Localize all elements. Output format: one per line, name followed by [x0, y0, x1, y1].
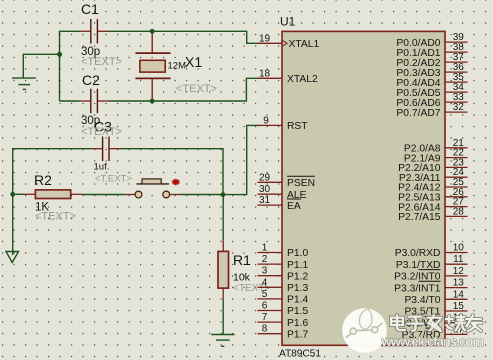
watermark glyph 发: [428, 315, 442, 331]
pin 16 P3.6/WR: [399, 313, 467, 330]
resistor R2: [24, 190, 82, 199]
pin 2 P1.1: [258, 254, 309, 271]
svg-text:<TEXT>: <TEXT>: [35, 211, 76, 223]
svg-text:1: 1: [262, 243, 268, 254]
svg-text:18: 18: [259, 68, 271, 79]
capacitor C3: [91, 137, 121, 162]
wire R2 to button: [82, 194, 125, 196]
pin 19 XTAL1: [258, 33, 320, 50]
svg-text:AT89C51: AT89C51: [279, 349, 321, 360]
svg-text:P1.0: P1.0: [287, 248, 308, 259]
watermark glyph 友: [466, 315, 482, 331]
wire C2 left: [60, 100, 80, 102]
pin 23 P2.2/A10: [398, 157, 467, 174]
svg-text:12M: 12M: [168, 61, 187, 72]
svg-text:P3.4/T0: P3.4/T0: [404, 295, 440, 306]
svg-text:P2.7/A15: P2.7/A15: [398, 212, 441, 223]
svg-text:P1.1: P1.1: [287, 260, 308, 271]
pin 24 P2.3/A11: [399, 167, 468, 184]
svg-text:P3.3/INT1: P3.3/INT1: [394, 283, 441, 294]
svg-text:P1.4: P1.4: [287, 295, 308, 306]
node crystal top junction: [150, 29, 155, 34]
svg-text:P1.7: P1.7: [287, 329, 308, 340]
pin 5 P1.4: [258, 289, 309, 306]
crystal X1: [135, 33, 170, 99]
pin 6 P1.5: [258, 301, 309, 318]
wire C1 left to corner: [60, 31, 80, 101]
svg-text:4: 4: [262, 277, 268, 288]
svg-text:P1.2: P1.2: [287, 271, 308, 282]
svg-text:<TEXT>: <TEXT>: [81, 126, 122, 138]
pin 14 P3.4/T0: [404, 289, 467, 306]
pin 22 P2.1/A9: [404, 148, 468, 165]
pin 25 P2.4/A12: [398, 177, 467, 194]
svg-text:9: 9: [263, 115, 269, 126]
wire node to R1: [222, 195, 224, 240]
node RST junction: [221, 192, 226, 197]
resistor R1: [218, 240, 229, 300]
wire C3 right to node: [121, 149, 224, 195]
pin 12 P3.2/INT0: [394, 266, 467, 283]
wire node to RST pin: [223, 125, 260, 194]
svg-text:5: 5: [262, 289, 268, 300]
svg-text:R1: R1: [233, 252, 251, 268]
pin 31 EA: [258, 195, 302, 212]
watermark chinese text: [391, 315, 482, 331]
pin 30 ALE: [258, 184, 307, 201]
pin 10 P3.0/RXD: [395, 243, 468, 260]
svg-text:31: 31: [259, 195, 271, 206]
IC U1 AT89C51 body: [282, 31, 445, 345]
pin 33 P0.6/AD6: [396, 92, 467, 109]
pin 35 P0.4/AD4: [396, 72, 467, 89]
svg-text:C1: C1: [81, 1, 99, 17]
node crystal bottom junction: [150, 99, 155, 104]
svg-text:P1.5: P1.5: [287, 306, 308, 317]
capacitor C1: [80, 19, 110, 44]
wire C3 left branch: [13, 149, 91, 195]
svg-text:12: 12: [453, 266, 465, 277]
svg-text:X1: X1: [185, 54, 202, 70]
pin 39 P0.0/AD0: [396, 32, 467, 49]
pin 32 P0.7/AD7: [396, 102, 467, 119]
svg-text:15: 15: [453, 301, 465, 312]
ground arrow (bottom-left): [6, 252, 19, 263]
svg-text:19: 19: [259, 33, 271, 44]
svg-text:1uf.: 1uf.: [94, 162, 110, 173]
wire R2 node to arrow ground: [12, 194, 14, 255]
svg-text:P1.6: P1.6: [287, 318, 308, 329]
svg-text:32: 32: [453, 102, 465, 113]
pin 4 P1.3: [258, 277, 309, 294]
watermark logo circle: [342, 308, 387, 353]
svg-text:10k: 10k: [233, 272, 251, 284]
watermark glyph 电: [391, 315, 405, 330]
svg-text:29: 29: [259, 172, 271, 183]
svg-text:RST: RST: [287, 121, 308, 132]
ground (under R1): [211, 335, 234, 347]
pin 3 P1.2: [258, 266, 309, 283]
svg-text:P0.7/AD7: P0.7/AD7: [396, 108, 440, 119]
pin 34 P0.5/AD5: [396, 82, 467, 99]
pin 8 P1.7: [258, 324, 309, 341]
capacitor C2: [80, 89, 110, 114]
ground (top-left): [12, 78, 36, 89]
pin 28 P2.7/A15: [398, 206, 467, 223]
pin 21 P2.0/A8: [404, 138, 468, 155]
pin 36 P0.3/AD3: [396, 62, 467, 79]
watermark glyph 烧: [446, 315, 467, 330]
wire R2 left: [13, 193, 24, 195]
svg-text:C2: C2: [82, 72, 100, 88]
svg-text:U1: U1: [280, 15, 296, 29]
svg-text:3: 3: [262, 266, 268, 277]
svg-text:<TEXT>: <TEXT>: [176, 83, 217, 95]
pin 38 P0.1/AD1: [396, 42, 467, 59]
svg-text:R2: R2: [34, 172, 52, 188]
button (push switch): [125, 179, 181, 198]
wire C1 right to XTAL1: [109, 31, 260, 43]
svg-text:13: 13: [453, 278, 465, 289]
svg-text:EA: EA: [287, 201, 301, 212]
svg-text:6: 6: [262, 301, 268, 312]
pin 11 P3.1/TXD: [396, 254, 468, 271]
pin 15 P3.5/T1: [404, 301, 467, 318]
svg-text:11: 11: [453, 254, 464, 265]
svg-text:7: 7: [262, 312, 268, 323]
pin 7 P1.6: [258, 312, 309, 329]
svg-text:30: 30: [259, 184, 271, 195]
svg-text:XTAL1: XTAL1: [289, 39, 320, 50]
svg-text:XTAL2: XTAL2: [287, 74, 318, 85]
pin 26 P2.5/A13: [398, 187, 467, 204]
wire button to node: [181, 194, 223, 196]
pin 29 PSEN: [258, 172, 316, 189]
svg-text:P1.3: P1.3: [287, 283, 308, 294]
pin 18 XTAL2: [258, 68, 318, 85]
pin 9 RST: [258, 115, 309, 132]
wire C2 right to XTAL2: [109, 78, 260, 101]
node R2 junction: [10, 192, 15, 197]
wire gnd branch: [23, 54, 59, 78]
svg-text:8: 8: [262, 324, 268, 335]
pin 1 P1.0: [258, 243, 309, 260]
wire R1 to ground: [222, 300, 224, 335]
svg-text:<T.EXT>: <T.EXT>: [95, 174, 132, 185]
pin 13 P3.3/INT1: [394, 278, 467, 295]
svg-text:PSEN: PSEN: [287, 178, 315, 189]
svg-text:10: 10: [453, 243, 465, 254]
node C1-gnd junction: [57, 52, 62, 57]
pin 37 P0.2/AD2: [396, 52, 467, 69]
pin 17 P3.7/RD: [402, 324, 468, 341]
svg-text:14: 14: [453, 289, 465, 300]
watermark glyph 子: [408, 317, 424, 331]
svg-text:2: 2: [262, 254, 268, 265]
svg-text:P3.0/RXD: P3.0/RXD: [395, 248, 441, 259]
svg-text:<TEXT>: <TEXT>: [81, 56, 122, 68]
svg-text:www.elecfans.com: www.elecfans.com: [381, 334, 485, 349]
pin 27 P2.6/A14: [398, 197, 467, 214]
svg-text:28: 28: [453, 206, 465, 217]
button red actuator dot: [171, 178, 180, 185]
